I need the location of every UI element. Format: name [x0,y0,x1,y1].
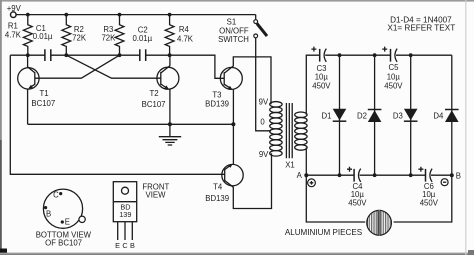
svg-text:BD139: BD139 [205,99,229,108]
wire: S1 to transformer centre tap [256,38,271,131]
wire: T4 collector to transformer 9V bottom tap [233,153,271,208]
node: R4 top [168,13,172,17]
svg-text:450V: 450V [312,81,331,90]
switch S1 on/off [218,15,267,44]
node: D3 bottom [409,173,413,177]
wire: D2 branch [374,55,376,175]
svg-text:4.7K: 4.7K [5,31,22,40]
diode D3 [393,109,418,122]
node: D3 top [409,53,413,57]
svg-text:E: E [65,218,70,227]
svg-text:450V: 450V [348,199,367,208]
svg-text:72K: 72K [101,34,116,43]
svg-text:T4: T4 [213,183,223,192]
node: T3/T4 emitter junction [231,122,235,126]
wire: D3 branch [410,55,412,175]
resistor R2 [62,15,87,56]
wire: T1 collector [27,55,29,67]
node: A output junction [304,173,308,177]
svg-text:D3: D3 [393,112,403,121]
resistor R1 [5,15,32,56]
svg-text:B: B [130,241,135,250]
node: T2 emitter ground [168,122,172,126]
diode D2 [357,110,381,123]
wire: C5 to D4 top [396,54,452,56]
transistor T3 (BD139) [205,66,242,108]
wire: T2 emitter [169,90,171,125]
terminal B negative symbol [441,171,461,185]
transistor T4 (BD139) [205,164,243,203]
svg-text:ON/OFF: ON/OFF [219,26,249,35]
node: R3 bottom [118,53,122,57]
transistor T1 (BC107) [18,67,56,108]
wire: T4 emitter [232,124,234,165]
note: D1-D4 = 1N4007 / X1 = refer text [387,15,455,32]
svg-text:SWITCH: SWITCH [218,35,249,44]
wire: C1 to C2 rail [51,54,140,56]
svg-text:ALUMINIUM PIECES: ALUMINIUM PIECES [285,228,363,237]
node: D1 bottom [338,173,342,177]
electrode: aluminium pieces [285,210,392,237]
svg-text:D1: D1 [322,112,332,121]
ground [159,124,181,145]
svg-text:C5: C5 [389,63,400,72]
wire: T3 emitter [232,90,234,125]
wire: cross-coupling R3/C2 junction to T1 base [35,55,120,78]
node: R2 top [64,13,68,17]
svg-text:BC107: BC107 [31,99,55,108]
svg-text:D2: D2 [357,112,367,121]
svg-text:9V: 9V [259,97,269,106]
svg-text:450V: 450V [384,81,403,90]
wire: output loop A to electrode [306,175,365,222]
svg-text:D4: D4 [433,112,444,121]
node: B output junction [450,173,454,177]
svg-text:C: C [53,191,59,200]
svg-text:0: 0 [260,117,265,126]
wire: T2 collector [169,55,171,66]
node: R4 bottom / T2 collector [168,53,172,57]
svg-text:450V: 450V [420,199,439,208]
capacitor C3 [311,47,331,91]
svg-text:B: B [46,210,51,219]
svg-text:R1: R1 [8,21,18,30]
svg-text:E: E [115,241,120,250]
svg-text:10µ: 10µ [315,73,329,82]
wire: +9V top rail [16,14,256,16]
wire: C6 to B [431,174,452,176]
diode D1 [322,109,347,122]
svg-text:139: 139 [119,210,131,219]
wire: cross-coupling C1/R2 junction to T2 base [66,55,161,78]
wire: emitter ground rail [28,123,234,125]
svg-text:9V: 9V [259,150,269,159]
svg-text:X1= REFER TEXT: X1= REFER TEXT [387,23,455,32]
svg-text:S1: S1 [227,18,237,27]
wire: secondary top lead [306,55,319,114]
svg-text:T3: T3 [212,91,221,100]
wire: bottom rail A to C4 [306,174,354,176]
wire: T1 emitter [27,89,29,124]
svg-text:BC107: BC107 [142,100,166,109]
node: D2 top [373,53,377,57]
wire: T3 collector to transformer 9V top tap [233,57,271,104]
svg-text:T1: T1 [40,89,49,98]
wire: T1 collector to T4 base feedback [10,55,224,174]
diode D4 [433,110,458,123]
capacitor C1 [33,24,53,61]
svg-text:B: B [456,171,461,180]
capacitor C4 [347,167,367,208]
transformer X1 [259,97,307,169]
BC107 bottom view diagram [36,189,92,247]
svg-text:0.01µ: 0.01µ [132,34,152,43]
wire: T1 collector node rail [10,54,45,56]
node: R3 top [118,13,122,17]
svg-text:VIEW: VIEW [146,191,167,200]
capacitor C5 [382,47,403,91]
+9V supply terminal [7,4,22,17]
wire: D1 branch [339,55,341,175]
svg-text:A: A [297,171,303,180]
node: R1 top [26,13,30,17]
svg-text:C: C [122,241,127,250]
svg-text:+9V: +9V [7,4,22,13]
svg-text:4.7K: 4.7K [177,35,194,44]
svg-text:0.01µ: 0.01µ [33,32,53,41]
wire: secondary bottom lead [305,148,307,176]
svg-text:R4: R4 [179,25,190,34]
svg-text:10µ: 10µ [387,73,401,82]
capacitor C6 [418,167,438,208]
node: R1 bottom [26,53,30,57]
resistor R4 [165,15,194,56]
terminal A positive symbol [297,171,316,187]
svg-text:T2: T2 [149,89,158,98]
svg-text:X1: X1 [285,160,295,169]
svg-text:72K: 72K [72,34,87,43]
wire: C2 to T3 base [146,55,225,78]
node: D2 bottom [373,173,377,177]
svg-text:OF BC107: OF BC107 [45,238,82,247]
wire: output loop B to electrode [394,175,452,222]
node: D1 top [338,53,342,57]
capacitor C2 [132,26,152,61]
svg-text:C3: C3 [317,64,327,73]
node: R2 bottom [64,53,68,57]
BD139 front view diagram [113,182,169,250]
wire: C3 to C5 rail [325,54,390,56]
resistor R3 [101,15,123,56]
wire: C4 to C6 rail [360,174,426,176]
svg-text:BD139: BD139 [205,194,229,203]
transistor T2 (BC107) [142,66,179,109]
wire: D4 branch [451,55,453,175]
